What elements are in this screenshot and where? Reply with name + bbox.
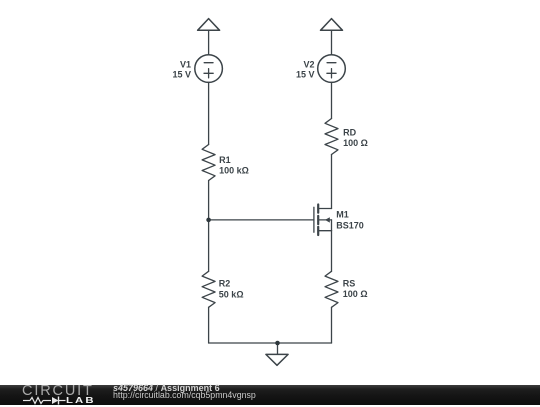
voltage source V2 <box>318 55 346 83</box>
wire: gate wire from divider node to M1 gate <box>209 219 314 221</box>
CircuitLab logo: LAB word <box>66 396 96 404</box>
wire: bottom rail <box>209 342 332 344</box>
wire: V1 bottom to R1 top <box>208 82 210 144</box>
label RD <box>343 128 368 149</box>
CircuitLab logo: squiggle (resistor + diode) <box>22 395 70 407</box>
label M1 <box>336 210 364 231</box>
footer text line 1 <box>113 384 220 392</box>
ground <box>266 343 288 365</box>
label R2 <box>219 279 244 300</box>
wire: R2 bottom to bottom rail <box>208 307 210 343</box>
wire: M1 source to RS top <box>331 231 333 272</box>
svg-text:15 V: 15 V <box>296 69 315 79</box>
resistor R1 <box>202 145 215 181</box>
wire: V1 flag to V1 top <box>208 30 210 55</box>
power terminal flag above V1 <box>198 19 220 31</box>
wire: V2 flag to V2 top <box>331 30 333 55</box>
svg-text:100 Ω: 100 Ω <box>343 289 368 299</box>
voltage source V1 <box>195 55 223 83</box>
svg-text:RS: RS <box>343 278 356 288</box>
svg-text:V2: V2 <box>303 59 314 69</box>
resistor RD <box>325 119 338 155</box>
node: ground junction <box>275 341 280 346</box>
node: gate/divider junction <box>206 218 211 223</box>
svg-text:R2: R2 <box>219 279 231 289</box>
label V1 <box>172 59 191 79</box>
svg-text:V1: V1 <box>180 59 191 69</box>
svg-text:M1: M1 <box>336 210 349 220</box>
svg-text:BS170: BS170 <box>336 220 364 230</box>
label R1 <box>219 155 249 176</box>
wire: R1 bottom to R2 top (through gate node) <box>208 181 210 272</box>
resistor RS <box>325 271 338 307</box>
wire: V2 bottom to RD top <box>331 82 333 118</box>
footer text line 2 <box>113 391 256 399</box>
label V2 <box>296 59 315 79</box>
svg-text:15 V: 15 V <box>172 69 191 79</box>
CircuitLab logo: CIRCUIT word <box>22 386 94 397</box>
svg-text:50 kΩ: 50 kΩ <box>219 289 244 299</box>
svg-text:R1: R1 <box>219 155 231 165</box>
label RS <box>343 278 368 299</box>
svg-text:RD: RD <box>343 128 356 138</box>
resistor R2 <box>202 271 215 307</box>
wire: RS bottom to bottom rail <box>331 307 333 343</box>
wire: RD bottom to M1 drain <box>331 155 333 209</box>
svg-text:100 kΩ: 100 kΩ <box>219 166 249 176</box>
n-mosfet M1 <box>314 205 332 236</box>
power terminal flag above V2 <box>321 19 343 31</box>
svg-text:100 Ω: 100 Ω <box>343 138 368 148</box>
